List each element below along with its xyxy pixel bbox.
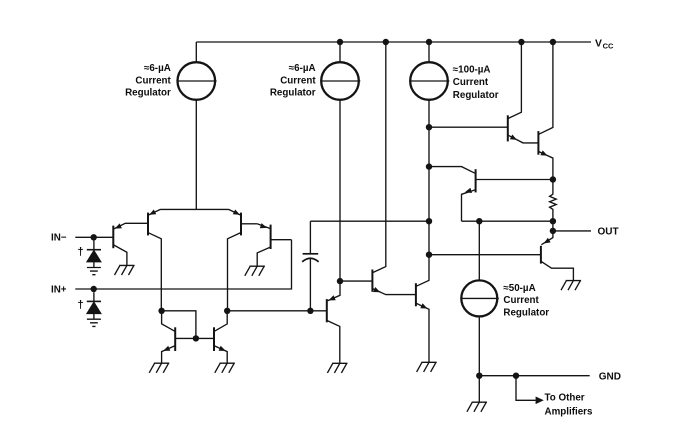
transistor Q3 <box>228 209 258 310</box>
wire mirror rail right <box>227 310 326 312</box>
ground Q4 collector <box>245 266 265 276</box>
svg-text:Regulator: Regulator <box>125 88 171 99</box>
wire stub I1 <box>195 42 197 62</box>
node mirror right <box>224 308 230 314</box>
label IN+ <box>51 284 67 295</box>
wire QD base <box>429 254 540 256</box>
transistor Q1 <box>113 223 147 265</box>
current regulator I1 <box>178 62 217 100</box>
node QA base tap <box>426 124 432 130</box>
svg-text:Amplifiers: Amplifiers <box>545 407 593 418</box>
transistor Q2 <box>148 209 161 310</box>
node GND left <box>476 373 482 379</box>
svg-text:OUT: OUT <box>598 227 619 238</box>
wire I4 top <box>478 221 480 280</box>
transistor Q5 <box>162 311 176 363</box>
svg-text:V: V <box>595 38 602 49</box>
svg-text:IN+: IN+ <box>51 284 67 295</box>
label IN- <box>51 233 67 244</box>
transistor QB <box>538 42 553 180</box>
label GND <box>599 371 621 382</box>
capacitor C1 <box>302 221 318 311</box>
transistor Q7 <box>327 100 340 363</box>
wire QA base <box>429 126 507 128</box>
wire IN- lead <box>75 236 113 238</box>
wire C1 top line <box>310 220 429 222</box>
svg-text:Current: Current <box>280 75 316 86</box>
resistor R1 <box>550 180 557 222</box>
wire stub I3 <box>428 42 430 62</box>
label I2 value <box>270 63 316 99</box>
current regulator I4 <box>461 280 499 316</box>
ground QD collector <box>561 281 581 291</box>
svg-text:†: † <box>78 246 84 258</box>
wire I4 bottom <box>478 316 480 402</box>
node OUT <box>550 228 556 234</box>
svg-text:≈100-µA: ≈100-µA <box>453 64 491 75</box>
label to other amplifiers <box>545 393 593 418</box>
ground Q6 emitter <box>215 363 235 373</box>
node rail junction 2 <box>383 39 389 45</box>
ground earth D1 <box>87 268 101 275</box>
transistor Q8 <box>372 42 415 295</box>
node rail junction 3 <box>426 39 432 45</box>
svg-text:CC: CC <box>603 41 614 50</box>
svg-text:≈50-µA: ≈50-µA <box>503 283 535 294</box>
svg-text:GND: GND <box>599 371 621 382</box>
svg-text:To Other: To Other <box>545 393 585 404</box>
label dagger D1 <box>78 246 84 258</box>
wire IN+ lead <box>75 240 291 289</box>
node C1 line tap <box>426 218 432 224</box>
transistor Q9 <box>416 100 429 362</box>
label OUT <box>598 227 619 238</box>
node rail junction 1 <box>337 39 343 45</box>
wire OUT lead <box>553 230 591 232</box>
svg-text:†: † <box>78 299 84 311</box>
node mirror base <box>193 335 199 341</box>
wire mirror base rail <box>176 337 214 339</box>
svg-text:Regulator: Regulator <box>503 307 549 318</box>
wire stub I2 <box>339 42 341 62</box>
svg-text:Current: Current <box>135 75 171 86</box>
wire to other amplifiers <box>516 376 536 401</box>
diode D1 <box>87 241 101 268</box>
label dagger D2 <box>78 299 84 311</box>
label I4 value <box>503 283 549 319</box>
transistor QD <box>541 231 574 280</box>
diode D2 <box>87 292 101 319</box>
node GND tap <box>513 373 519 379</box>
node rail junction 5 <box>550 39 556 45</box>
node rail junction 4 <box>518 39 524 45</box>
label I1 value <box>125 63 171 99</box>
ground Q7 collector <box>327 363 347 373</box>
wire QC emitter line <box>462 220 553 222</box>
current regulator I2 <box>321 62 360 100</box>
wire tail rail <box>160 208 229 210</box>
node IN- junction <box>91 234 97 240</box>
transistor Q6 <box>214 311 227 363</box>
wire Q8 base <box>340 280 372 282</box>
node mirror left <box>158 308 164 314</box>
node I4 top tap <box>476 218 482 224</box>
svg-text:≈6-µA: ≈6-µA <box>144 63 171 74</box>
node R1 bottom <box>550 218 556 224</box>
node Q7 emitter tap <box>337 278 343 284</box>
svg-text:Regulator: Regulator <box>453 90 499 101</box>
svg-text:Current: Current <box>503 295 539 306</box>
ground Q1 collector <box>115 265 135 275</box>
ground Q9 emitter <box>417 362 437 372</box>
current regulator I3 <box>410 62 449 100</box>
svg-text:Current: Current <box>453 77 489 88</box>
node QC collector tap <box>426 163 432 169</box>
node C1 bottom <box>307 308 313 314</box>
arrow to other amplifiers <box>536 397 544 405</box>
svg-text:IN−: IN− <box>51 233 67 244</box>
svg-text:Regulator: Regulator <box>270 88 316 99</box>
svg-text:≈6-µA: ≈6-µA <box>289 63 316 74</box>
node IN+ junction <box>91 286 97 292</box>
transistor QC <box>429 167 553 222</box>
wire mirror base tie <box>162 311 196 339</box>
node QD base tap <box>426 252 432 258</box>
label I3 value <box>453 64 499 101</box>
ground I4 <box>467 402 487 412</box>
wire R1 to OUT <box>552 221 554 231</box>
wire I1 to tail <box>195 100 197 210</box>
transistor Q4 <box>257 223 291 266</box>
wire VCC rail <box>196 41 591 43</box>
node QB emitter <box>550 176 556 182</box>
label VCC <box>595 38 614 50</box>
wire GND rail <box>479 375 589 377</box>
transistor QA <box>508 42 538 143</box>
ground earth D2 <box>87 319 101 326</box>
ground Q5 emitter <box>149 363 169 373</box>
